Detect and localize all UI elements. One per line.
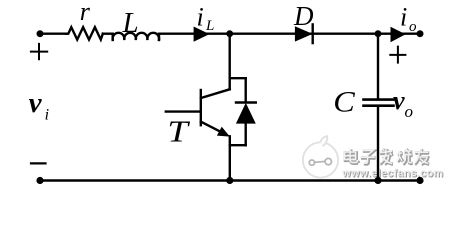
svg-text:r: r	[80, 0, 91, 26]
svg-text:C: C	[333, 85, 356, 118]
svg-text:i: i	[400, 3, 407, 32]
svg-text:i: i	[197, 2, 204, 31]
svg-text:v: v	[393, 86, 405, 115]
svg-text:v: v	[29, 87, 43, 119]
svg-text:www.elecfans.com: www.elecfans.com	[341, 167, 443, 179]
svg-text:L: L	[122, 7, 139, 39]
svg-text:o: o	[409, 19, 417, 35]
svg-text:T: T	[167, 113, 191, 148]
svg-text:L: L	[205, 18, 214, 34]
svg-text:o: o	[405, 102, 414, 121]
svg-text:D: D	[293, 1, 314, 31]
svg-text:i: i	[45, 106, 49, 123]
